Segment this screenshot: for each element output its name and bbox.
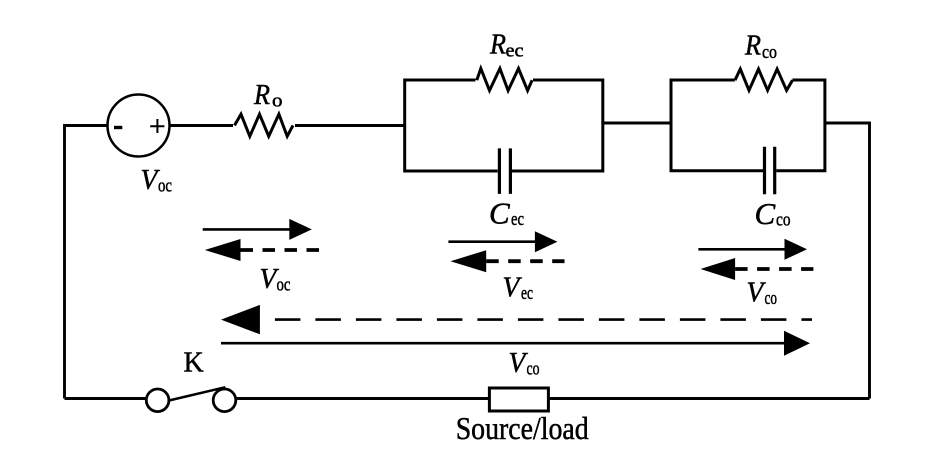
- long dashed left arrow: [260, 318, 812, 321]
- arrow pair 2 dashed left arrow: [486, 259, 564, 263]
- svg-text:o: o: [272, 92, 283, 112]
- capacitor C_ec plates: [499, 148, 510, 194]
- svg-text:co: co: [776, 211, 791, 231]
- RC block 1 box outline: [405, 80, 603, 171]
- minus sign inside source: [114, 126, 122, 129]
- svg-text:C: C: [489, 196, 510, 231]
- svg-text:K: K: [184, 347, 204, 378]
- svg-text:ec: ec: [521, 284, 533, 304]
- long solid right arrow: [221, 342, 786, 345]
- wire: block2 to right vertical wire down the right side: [825, 123, 870, 399]
- Source/load box: [489, 388, 548, 411]
- svg-text:oc: oc: [158, 177, 172, 197]
- wire: block1 to block2: [603, 122, 671, 125]
- svg-text:co: co: [527, 360, 540, 380]
- svg-text:R: R: [744, 30, 761, 62]
- arrow pair 1 dashed left arrow: [241, 248, 320, 252]
- resistor R_co on top edge: [735, 69, 793, 90]
- svg-text:R: R: [489, 29, 506, 61]
- svg-text:ec: ec: [511, 210, 524, 230]
- svg-text:R: R: [253, 79, 270, 111]
- wire: R_o to RC block 1: [295, 124, 405, 127]
- arrow pair 3 dashed left arrow: [735, 267, 813, 271]
- bottom wire right segment: [548, 397, 869, 400]
- voltage source V_oc circle: [108, 95, 170, 157]
- resistor R_o: [235, 114, 294, 136]
- svg-text:co: co: [762, 43, 777, 63]
- switch lever: [170, 387, 226, 400]
- svg-text:co: co: [765, 289, 778, 309]
- arrow pair 3 solid right arrow: [698, 248, 786, 251]
- capacitor C_co plates: [765, 147, 775, 195]
- svg-text:C: C: [755, 196, 776, 231]
- switch left contact circle: [146, 389, 169, 412]
- svg-text:ec: ec: [506, 42, 524, 62]
- arrow pair 1 solid right arrow: [203, 228, 292, 231]
- bottom wire left segment: [65, 397, 147, 400]
- arrow pair 2 solid right arrow: [448, 240, 537, 243]
- resistor R_ec on top edge: [477, 69, 532, 91]
- svg-text:oc: oc: [277, 276, 291, 296]
- wire: top-left corner and left vertical wire: [65, 126, 108, 399]
- bottom wire middle segment: [236, 397, 490, 400]
- svg-text:Source/load: Source/load: [456, 411, 589, 446]
- wire: source to R_o: [170, 124, 234, 127]
- switch right contact circle: [213, 389, 236, 412]
- RC block 2 box outline: [671, 80, 825, 171]
- plus sign inside source: [150, 119, 164, 133]
